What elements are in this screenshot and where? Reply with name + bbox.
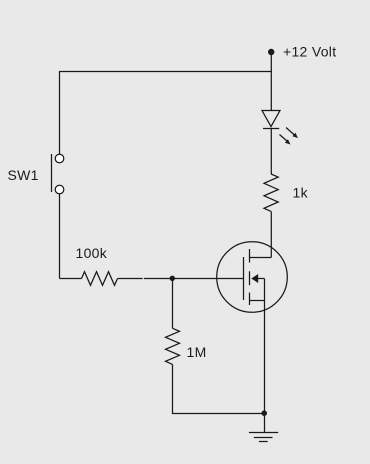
resistor R1 100k <box>82 272 118 286</box>
svg-text:100k: 100k <box>76 245 108 261</box>
transistor Q1 body arrow <box>251 274 258 283</box>
wire corner to resistor R1 <box>60 278 82 280</box>
svg-text:1k: 1k <box>293 185 309 201</box>
wire top horizontal <box>59 71 272 73</box>
wire R3 to ground rail <box>173 364 265 413</box>
wire node down to resistor R3 <box>172 279 174 329</box>
wire switch to corner <box>59 194 61 279</box>
transistor Q1 body line <box>258 278 265 280</box>
transistor Q1 source bar <box>250 300 265 302</box>
node ground junction dot <box>261 410 267 416</box>
node A junction dot <box>170 276 175 281</box>
wire node A to gate <box>144 278 244 280</box>
wire resistor to node A <box>118 278 143 280</box>
transistor Q1 channel segment middle <box>249 271 251 285</box>
transistor Q1 channel segment bottom <box>249 293 251 306</box>
wire LED to resistor R2 <box>270 129 272 175</box>
transistor Q1 drain connection <box>250 257 272 259</box>
switch SW1 <box>52 154 64 194</box>
node +12V dot <box>268 49 274 55</box>
wire ground stem <box>264 413 266 432</box>
wire MOSFET source to ground node <box>264 301 266 414</box>
transistor Q1 source vertical <box>264 279 266 301</box>
transistor Q1 gate bar <box>243 257 245 300</box>
wire +12V down to LED <box>270 52 272 111</box>
svg-text:1M: 1M <box>187 344 207 360</box>
ground <box>249 433 278 442</box>
wire R2 to MOSFET drain <box>270 211 272 257</box>
resistor R3 1M <box>166 328 180 364</box>
svg-text:SW1: SW1 <box>8 167 39 183</box>
transistor Q1 channel segment top <box>249 249 251 263</box>
transistor Q1 MOSFET body circle <box>217 242 288 313</box>
svg-text:+12 Volt: +12 Volt <box>283 44 336 60</box>
resistor R2 1k <box>264 174 278 211</box>
LED D1 <box>262 111 298 145</box>
wire left vertical <box>59 72 61 155</box>
